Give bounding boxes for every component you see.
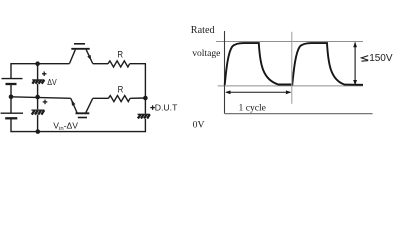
wire bottom rail (11, 131, 146, 133)
wire left rail lower (10, 97, 12, 113)
resistor R1 (108, 61, 130, 67)
capacitor D.U.T (hatched electrolytic) (138, 114, 150, 118)
wire right vertical drop (144, 64, 146, 98)
wire D.U.T upper lead (144, 98, 146, 114)
svg-text:voltage: voltage (192, 48, 220, 59)
wire left rail upper (10, 63, 12, 79)
wire Q1 emitter to R (93, 63, 109, 65)
svg-text:1 cycle: 1 cycle (239, 103, 266, 114)
label less-equal 150V (361, 53, 392, 64)
extension line cycle boundary (291, 32, 293, 104)
svg-text:ΔV: ΔV (47, 77, 57, 87)
node battery midpoint (9, 95, 14, 100)
svg-text:150V: 150V (369, 53, 393, 64)
node middle delta-V junction (35, 95, 40, 100)
capacitor Vin-delta-V (hatched electrolytic) (31, 110, 44, 115)
label plus sign of Vin-delta-V (43, 100, 48, 105)
wire left rail middle (10, 84, 12, 97)
wire delta-V branch lower lead (37, 84, 39, 97)
waveform surge pulses (225, 43, 363, 85)
svg-text:Vin-ΔV: Vin-ΔV (53, 121, 78, 132)
svg-text:0V: 0V (193, 119, 205, 130)
wire Vin-delta-V branch upper lead (37, 97, 39, 110)
wire Q2 emitter to R (93, 97, 109, 99)
node D.U.T junction (143, 96, 148, 101)
battery B2 positive plate (1, 112, 23, 114)
wire Vin-delta-V branch lower lead (37, 115, 39, 132)
wire middle rail (11, 97, 71, 99)
wire R1 to corner (130, 63, 146, 65)
dimension arrow less-equal 150V (353, 42, 357, 86)
wire delta-V branch upper lead (37, 64, 39, 80)
svg-text:D.U.T: D.U.T (155, 103, 178, 113)
wire left rail bottom (10, 118, 12, 132)
svg-text:R: R (118, 84, 124, 95)
capacitor delta-V (hatched electrolytic) (32, 80, 44, 84)
label plus sign of D.U.T (150, 105, 155, 110)
valley level line (218, 85, 363, 87)
label plus sign of delta-V (42, 72, 47, 77)
wire R2 to node (130, 97, 145, 99)
axis baseline 0V (225, 113, 373, 115)
dimension arrow 1 cycle (225, 90, 291, 94)
transistor Q1 (70, 44, 93, 64)
transistor Q2 (71, 98, 93, 117)
wire D.U.T lower lead (144, 119, 146, 132)
resistor R2 (108, 96, 130, 102)
node top delta-V junction (35, 61, 40, 66)
rated voltage level line (216, 41, 363, 43)
battery B1 negative plate (6, 83, 17, 85)
battery B2 negative plate (5, 117, 17, 119)
svg-text:Rated: Rated (191, 25, 215, 36)
wire top rail (11, 63, 70, 65)
battery B1 positive plate (2, 78, 23, 80)
axis vertical (224, 31, 226, 114)
svg-text:R: R (117, 49, 123, 60)
node bottom junction (36, 129, 41, 134)
